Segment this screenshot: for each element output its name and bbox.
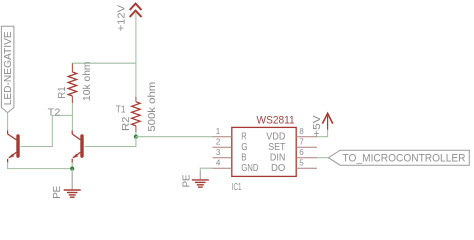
svg-text:B: B bbox=[241, 153, 247, 164]
pin 5 DO bbox=[296, 167, 317, 169]
wire junction to ground bbox=[71, 169, 73, 172]
node junction R2/pin1/base bbox=[134, 135, 138, 139]
pin 6 DIN bbox=[296, 157, 317, 159]
svg-text:10k ohm: 10k ohm bbox=[82, 62, 93, 102]
svg-text:VDD: VDD bbox=[266, 132, 285, 143]
wire junction down to T1 base bbox=[85, 137, 136, 147]
supply symbol +12V bbox=[130, 4, 142, 17]
svg-text:IC1: IC1 bbox=[232, 181, 242, 193]
svg-text:8: 8 bbox=[299, 127, 304, 136]
svg-text:LED-NEGATIVE: LED-NEGATIVE bbox=[3, 31, 14, 106]
svg-text:SET: SET bbox=[268, 142, 285, 153]
resistor R2 bbox=[132, 97, 140, 132]
svg-text:+5V: +5V bbox=[312, 115, 323, 137]
resistor R1 bbox=[68, 63, 76, 103]
wire +12V rail down to R2 bbox=[135, 63, 137, 97]
pin 3 B bbox=[213, 157, 232, 159]
svg-text:DIN: DIN bbox=[270, 153, 286, 164]
svg-text:3: 3 bbox=[216, 148, 221, 157]
svg-text:G: G bbox=[241, 142, 247, 153]
wire base cross-coupling T2 base to T1 collector column bbox=[21, 115, 72, 146]
node junction emitters/ground bbox=[70, 167, 74, 171]
supply symbol +5V bbox=[322, 113, 332, 129]
wire pin 6 to flag bbox=[317, 157, 328, 159]
flag TO_MICROCONTROLLER bbox=[328, 150, 469, 165]
wire pin 8 to +5V bbox=[317, 129, 328, 137]
wire +12V shaft down bbox=[135, 13, 137, 63]
wire R2 bottom to junction bbox=[135, 132, 137, 137]
ground PE (right) bbox=[192, 180, 209, 187]
svg-text:PE: PE bbox=[52, 185, 63, 198]
svg-text:7: 7 bbox=[299, 138, 304, 147]
transistor T1 (right) bbox=[72, 131, 82, 164]
svg-text:R: R bbox=[241, 132, 246, 143]
wire junction to IC pin 1 bbox=[136, 136, 213, 138]
svg-text:GND: GND bbox=[241, 163, 258, 174]
svg-text:500k ohm: 500k ohm bbox=[147, 82, 158, 132]
IC U1 WS2811 box bbox=[232, 127, 296, 176]
svg-text:WS2811: WS2811 bbox=[257, 114, 295, 126]
svg-text:R2: R2 bbox=[121, 117, 132, 132]
svg-text:+12V: +12V bbox=[117, 5, 128, 32]
pin 8 VDD bbox=[296, 136, 317, 138]
svg-text:6: 6 bbox=[299, 148, 304, 157]
pin 1 R bbox=[213, 136, 232, 138]
svg-text:T1: T1 bbox=[116, 105, 126, 116]
wire R1 bottom down to T1 collector bbox=[71, 103, 73, 131]
wire T1 emitter down to junction bbox=[71, 162, 73, 169]
pin 2 G bbox=[213, 146, 232, 148]
svg-text:T2: T2 bbox=[48, 108, 61, 119]
svg-text:R1: R1 bbox=[57, 87, 68, 99]
svg-text:DO: DO bbox=[271, 163, 286, 174]
ground PE (left) bbox=[64, 190, 81, 197]
svg-text:2: 2 bbox=[216, 138, 221, 147]
svg-text:PE: PE bbox=[182, 174, 193, 187]
svg-text:4: 4 bbox=[216, 159, 221, 168]
pin 4 GND bbox=[213, 167, 232, 169]
flag LED-NEGATIVE bbox=[1, 26, 14, 112]
svg-text:1: 1 bbox=[216, 127, 221, 136]
svg-text:TO_MICROCONTROLLER: TO_MICROCONTROLLER bbox=[343, 153, 466, 165]
pin 7 SET bbox=[296, 146, 317, 148]
wire pin 4 to ground bbox=[200, 168, 212, 171]
transistor T2 (left) bbox=[8, 131, 18, 164]
wire flag to T2 collector bbox=[7, 113, 9, 131]
wire T2 emitter down and right to junction bbox=[8, 162, 73, 169]
svg-text:5: 5 bbox=[299, 159, 304, 168]
wire horizontal +12V branch to R1 bbox=[72, 62, 135, 64]
